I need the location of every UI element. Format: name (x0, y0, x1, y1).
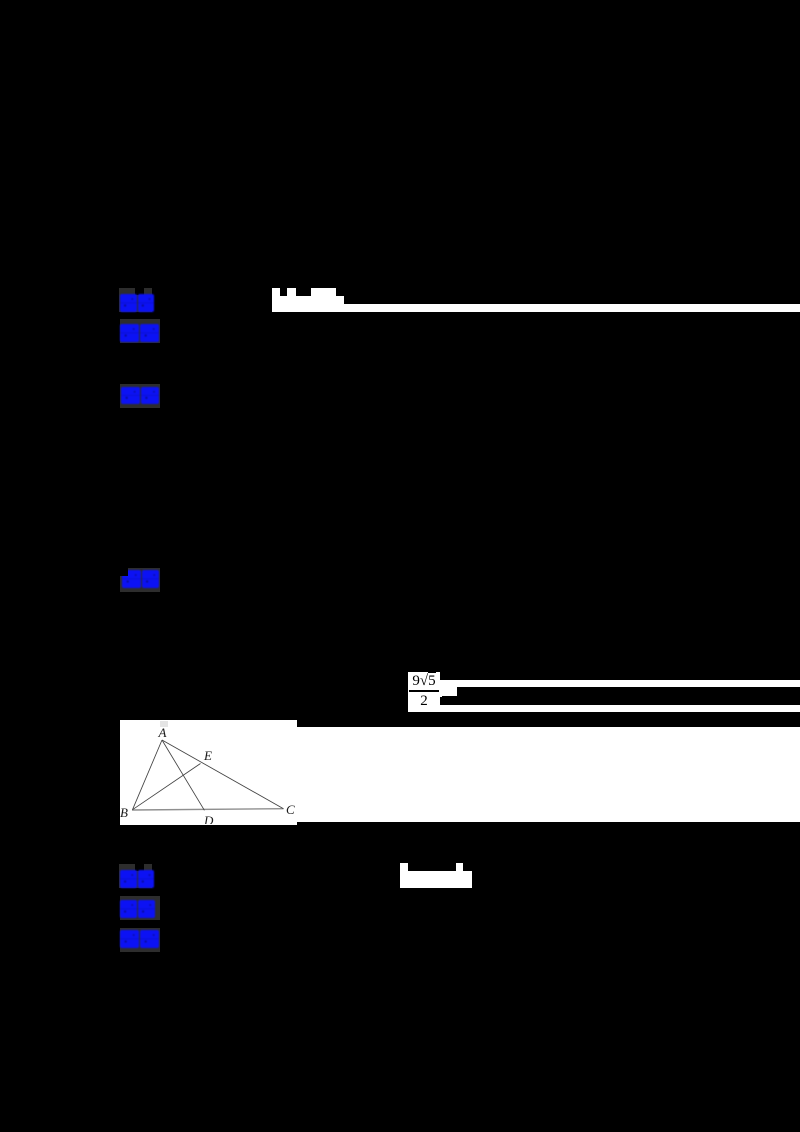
svg-text:C: C (286, 802, 295, 817)
svg-text:A: A (158, 725, 167, 740)
svg-text:D: D (203, 813, 214, 824)
svg-text:B: B (120, 805, 128, 820)
svg-text:E: E (203, 748, 212, 763)
